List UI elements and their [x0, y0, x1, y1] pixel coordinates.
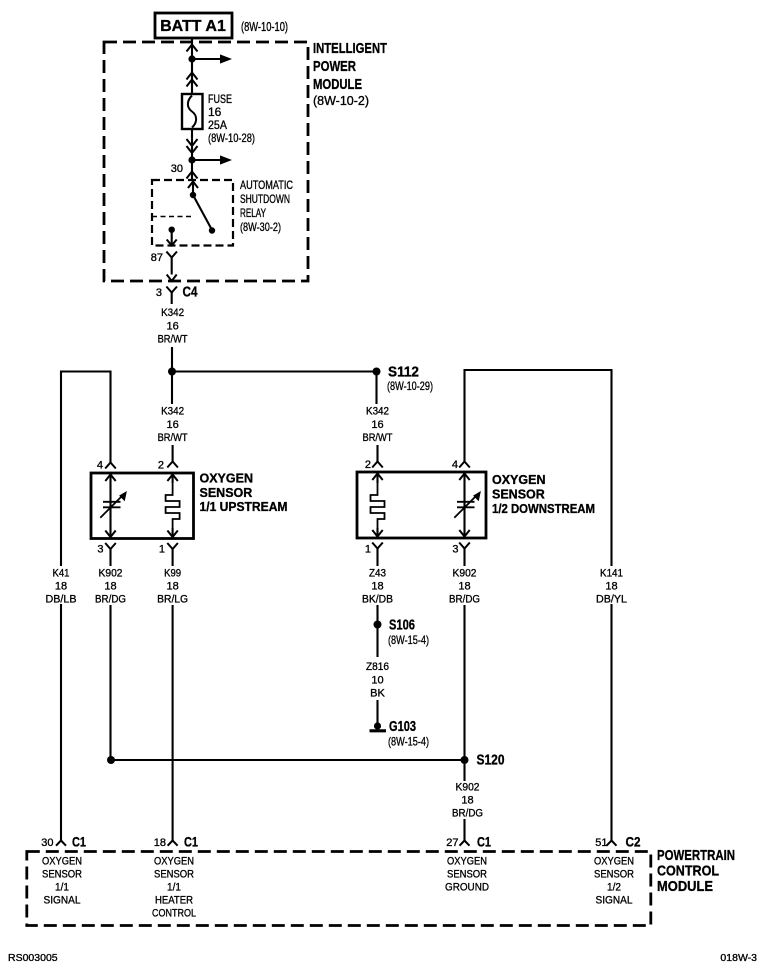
svg-text:S106: S106	[389, 618, 415, 634]
svg-text:18: 18	[166, 581, 178, 593]
svg-text:SHUTDOWN: SHUTDOWN	[240, 192, 290, 206]
svg-text:SIGNAL: SIGNAL	[44, 895, 81, 907]
svg-text:BK: BK	[370, 688, 385, 700]
svg-text:MODULE: MODULE	[313, 76, 362, 93]
svg-text:S120: S120	[477, 753, 505, 769]
svg-text:51: 51	[595, 837, 607, 849]
svg-text:C1: C1	[184, 834, 198, 850]
svg-text:27: 27	[446, 837, 458, 849]
svg-text:OXYGEN: OXYGEN	[594, 856, 634, 868]
svg-text:BR/DG: BR/DG	[452, 808, 483, 820]
svg-text:(8W-15-4): (8W-15-4)	[388, 633, 429, 647]
svg-text:DB/YL: DB/YL	[596, 594, 627, 606]
svg-text:RS003005: RS003005	[8, 952, 58, 964]
svg-text:K342: K342	[161, 406, 184, 418]
svg-text:C2: C2	[626, 834, 641, 850]
svg-text:SENSOR: SENSOR	[492, 488, 545, 502]
svg-text:CONTROL: CONTROL	[657, 863, 719, 880]
svg-text:K342: K342	[161, 307, 184, 319]
svg-text:BR/WT: BR/WT	[363, 432, 393, 444]
svg-text:(8W-10-28): (8W-10-28)	[208, 131, 255, 145]
svg-text:CONTROL: CONTROL	[152, 908, 196, 920]
svg-text:SENSOR: SENSOR	[154, 869, 194, 881]
svg-text:1/1: 1/1	[55, 882, 69, 894]
svg-text:18: 18	[154, 837, 166, 849]
svg-text:OXYGEN: OXYGEN	[200, 472, 254, 486]
svg-text:C1: C1	[72, 834, 86, 850]
svg-text:FUSE: FUSE	[208, 92, 232, 106]
svg-text:BATT A1: BATT A1	[160, 18, 226, 35]
svg-text:87: 87	[151, 252, 163, 264]
svg-text:SIGNAL: SIGNAL	[596, 895, 633, 907]
svg-text:G103: G103	[389, 719, 416, 735]
svg-text:1: 1	[159, 544, 165, 556]
svg-text:(8W-10-2): (8W-10-2)	[313, 94, 369, 108]
svg-text:BR/LG: BR/LG	[157, 594, 188, 606]
svg-text:SENSOR: SENSOR	[200, 486, 253, 500]
svg-text:18: 18	[461, 795, 473, 807]
svg-text:16: 16	[166, 321, 178, 333]
svg-text:AUTOMATIC: AUTOMATIC	[240, 178, 293, 192]
svg-text:(8W-10-10): (8W-10-10)	[241, 20, 288, 34]
svg-text:HEATER: HEATER	[155, 895, 193, 907]
svg-text:3: 3	[452, 544, 458, 556]
svg-text:DB/LB: DB/LB	[46, 594, 77, 606]
svg-text:16: 16	[166, 419, 178, 431]
svg-text:2: 2	[365, 459, 371, 471]
svg-text:18: 18	[371, 581, 383, 593]
svg-text:1: 1	[365, 544, 371, 556]
svg-text:C1: C1	[477, 834, 491, 850]
svg-text:POWER: POWER	[313, 58, 356, 75]
svg-text:018W-3: 018W-3	[720, 952, 757, 964]
svg-text:C4: C4	[183, 285, 198, 301]
svg-text:1/2 DOWNSTREAM: 1/2 DOWNSTREAM	[492, 502, 595, 516]
svg-text:16: 16	[371, 419, 383, 431]
svg-text:(8W-15-4): (8W-15-4)	[388, 735, 429, 749]
svg-text:(8W-10-29): (8W-10-29)	[387, 379, 433, 393]
svg-text:1/1 UPSTREAM: 1/1 UPSTREAM	[200, 500, 288, 514]
svg-text:4: 4	[97, 460, 103, 472]
svg-text:OXYGEN: OXYGEN	[42, 856, 82, 868]
svg-text:Z816: Z816	[366, 661, 389, 673]
svg-text:K41: K41	[53, 568, 70, 580]
svg-text:10: 10	[371, 675, 383, 687]
svg-text:Z43: Z43	[369, 568, 386, 580]
svg-text:GROUND: GROUND	[445, 882, 489, 894]
svg-text:(8W-30-2): (8W-30-2)	[240, 220, 281, 234]
svg-text:RELAY: RELAY	[240, 206, 266, 220]
svg-text:K342: K342	[366, 406, 389, 418]
svg-text:18: 18	[605, 581, 617, 593]
svg-text:3: 3	[97, 544, 103, 556]
svg-text:2: 2	[158, 460, 164, 472]
svg-text:18: 18	[458, 581, 470, 593]
svg-text:4: 4	[452, 459, 458, 471]
svg-text:18: 18	[104, 581, 116, 593]
svg-text:25A: 25A	[208, 118, 227, 132]
svg-text:SENSOR: SENSOR	[447, 869, 487, 881]
svg-text:BR/DG: BR/DG	[449, 594, 480, 606]
svg-text:OXYGEN: OXYGEN	[447, 856, 487, 868]
svg-text:OXYGEN: OXYGEN	[154, 856, 194, 868]
svg-text:BR/WT: BR/WT	[158, 334, 188, 346]
svg-text:BR/WT: BR/WT	[158, 432, 188, 444]
svg-text:SENSOR: SENSOR	[42, 869, 82, 881]
svg-text:MODULE: MODULE	[657, 878, 713, 895]
svg-text:K99: K99	[164, 568, 181, 580]
svg-text:BK/DB: BK/DB	[362, 594, 393, 606]
svg-text:30: 30	[41, 837, 53, 849]
svg-text:K902: K902	[456, 782, 480, 794]
svg-text:K902: K902	[453, 568, 477, 580]
svg-text:BR/DG: BR/DG	[95, 594, 126, 606]
svg-text:30: 30	[171, 163, 183, 175]
svg-text:1/2: 1/2	[607, 882, 621, 894]
svg-text:18: 18	[55, 581, 67, 593]
svg-text:K141: K141	[600, 568, 623, 580]
svg-text:3: 3	[156, 287, 162, 299]
svg-text:SENSOR: SENSOR	[594, 869, 634, 881]
svg-text:16: 16	[208, 105, 222, 119]
svg-text:INTELLIGENT: INTELLIGENT	[313, 40, 387, 57]
svg-text:POWERTRAIN: POWERTRAIN	[657, 847, 735, 864]
svg-text:1/1: 1/1	[167, 882, 181, 894]
svg-text:K902: K902	[99, 568, 123, 580]
svg-text:OXYGEN: OXYGEN	[492, 473, 546, 487]
